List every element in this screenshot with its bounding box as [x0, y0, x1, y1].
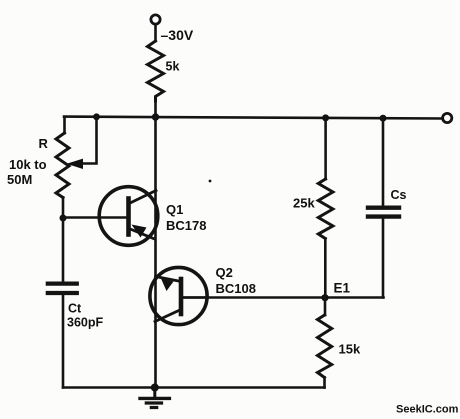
svg-text:–30V: –30V: [161, 27, 194, 43]
wire terminal to 5k: [154, 24, 157, 41]
capacitor Cs: [368, 208, 399, 217]
wire rail to Cs: [382, 118, 385, 205]
svg-text:5k: 5k: [166, 60, 180, 74]
node rail/Cs junction: [380, 115, 387, 122]
wire Q2 base to Cs bottom through E1: [181, 296, 384, 299]
svg-text:E1: E1: [334, 281, 351, 296]
wire rail to 25k: [324, 118, 327, 179]
resistor R variable: [56, 133, 69, 198]
node rail/25k junction: [322, 114, 329, 121]
wire base node to Q1: [63, 216, 127, 219]
wire rail left bend down to R top: [63, 117, 66, 133]
wire ground rail: [63, 386, 325, 389]
svg-text:R: R: [39, 136, 49, 151]
svg-text:Q2: Q2: [216, 265, 233, 280]
svg-text:15k: 15k: [339, 342, 361, 357]
node E1: [321, 294, 328, 301]
svg-text:BC108: BC108: [216, 281, 256, 296]
resistor 25k: [318, 179, 333, 239]
wiper arrow of R: [67, 159, 84, 169]
svg-text:Q1: Q1: [166, 202, 183, 217]
ground: [140, 388, 169, 408]
wire Cs to E1 wire: [382, 219, 385, 298]
wire top rail: [64, 117, 443, 119]
wire 5k to rail: [154, 101, 157, 117]
wire 25k to E1: [324, 239, 327, 298]
wire wiper arm up to rail: [80, 117, 97, 164]
wire main vertical rail-to-ground: [154, 117, 157, 388]
svg-text:Cs: Cs: [391, 188, 407, 202]
wire R bottom to base node: [62, 198, 65, 219]
transistor Q2 BC108: [150, 267, 207, 324]
resistor 15k: [318, 315, 332, 378]
wire E1 to 15k: [324, 298, 327, 315]
speck artifact: [209, 180, 212, 183]
terminal -30V supply: [151, 15, 160, 24]
wire Ct top lead: [62, 218, 65, 282]
node rail/tap junction: [93, 113, 100, 120]
svg-text:Ct: Ct: [68, 302, 82, 316]
svg-text:360pF: 360pF: [67, 316, 103, 330]
node rail/5k junction: [152, 113, 159, 120]
svg-text:50M: 50M: [7, 172, 32, 187]
node ground junction: [151, 384, 159, 392]
resistor 5k: [148, 41, 164, 101]
svg-text:25k: 25k: [293, 196, 315, 211]
svg-text:BC178: BC178: [166, 218, 206, 233]
terminal output: [443, 113, 452, 122]
capacitor Ct: [48, 284, 77, 293]
svg-text:10k to: 10k to: [9, 157, 47, 172]
node Q1 base node: [60, 215, 67, 222]
wire Ct bottom lead: [62, 295, 65, 388]
transistor Q1 BC178: [99, 187, 158, 246]
wire 15k to ground rail: [323, 378, 326, 388]
svg-text:SeekIC.com: SeekIC.com: [396, 404, 459, 416]
